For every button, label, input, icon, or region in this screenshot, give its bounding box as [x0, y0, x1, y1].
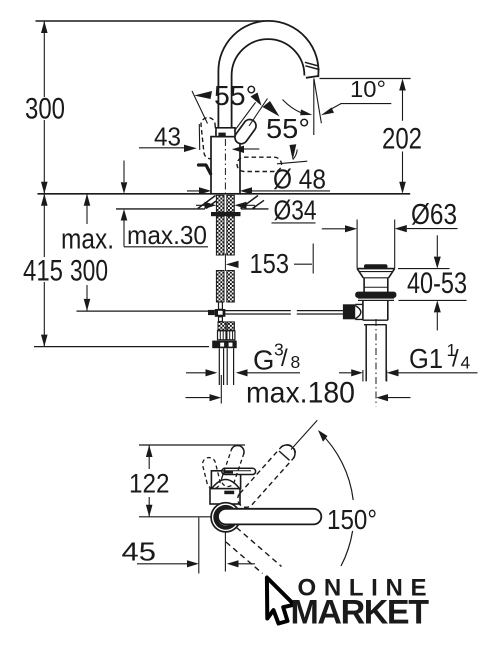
svg-text:4: 4	[461, 353, 471, 373]
svg-text:150°: 150°	[327, 504, 377, 535]
svg-text:55°: 55°	[214, 80, 257, 111]
svg-text:415: 415	[23, 255, 63, 288]
svg-text:45: 45	[122, 537, 157, 567]
svg-text:Ø34: Ø34	[274, 195, 317, 226]
svg-text:MARKET: MARKET	[291, 594, 430, 632]
svg-text:Ø63: Ø63	[411, 199, 457, 231]
svg-text:10°: 10°	[350, 76, 386, 102]
svg-text:8: 8	[291, 352, 301, 372]
svg-text:G: G	[253, 345, 274, 376]
svg-text:G1: G1	[409, 343, 443, 374]
svg-text:43: 43	[154, 124, 181, 152]
svg-text:/: /	[452, 346, 459, 373]
svg-text:55°: 55°	[266, 113, 310, 144]
svg-text:/: /	[281, 345, 288, 372]
svg-text:202: 202	[382, 123, 422, 156]
svg-text:max.180: max.180	[246, 377, 355, 410]
svg-text:max.30: max.30	[127, 220, 207, 250]
svg-text:300: 300	[25, 93, 65, 126]
svg-text:max.: max.	[61, 224, 114, 256]
svg-text:153: 153	[250, 248, 290, 279]
svg-text:Ø 48: Ø 48	[273, 164, 326, 195]
svg-text:122: 122	[129, 469, 170, 499]
svg-text:300: 300	[70, 255, 108, 288]
svg-text:40-53: 40-53	[407, 267, 467, 300]
